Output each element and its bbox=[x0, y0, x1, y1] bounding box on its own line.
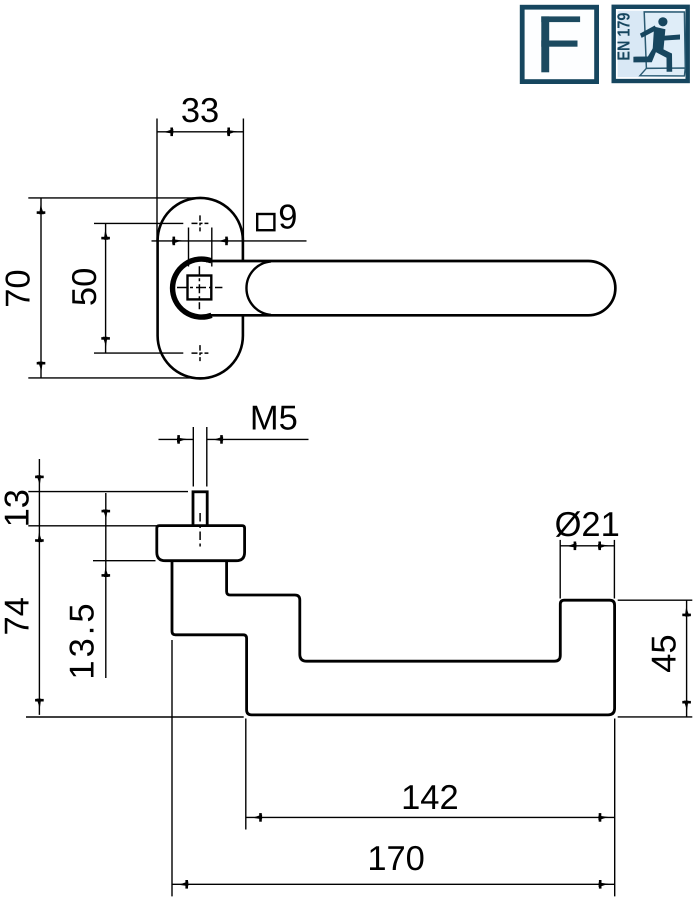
dimension 50 line bbox=[105, 223, 107, 353]
M5 left outside arrow bbox=[177, 435, 187, 444]
dim 142 left arrow bbox=[252, 813, 262, 822]
M5 stud bbox=[193, 492, 207, 527]
svg-text:Ø21: Ø21 bbox=[555, 506, 620, 544]
dia21 left arrow bbox=[567, 542, 577, 551]
dim 170 left arrow bbox=[179, 880, 189, 889]
dim 74 bottom arrow (down) bbox=[35, 699, 44, 709]
dim 45 line bbox=[686, 600, 688, 717]
dim 70 top arrow bbox=[37, 204, 46, 214]
shared right extension line bbox=[614, 719, 616, 897]
neck circle white mask bbox=[170, 257, 233, 320]
EN179 logo box bbox=[614, 7, 688, 81]
M5 right outside arrow bbox=[213, 435, 223, 444]
front leg bbox=[654, 46, 672, 72]
spindle centerline horizontal bbox=[177, 287, 222, 289]
M5 extension lines bbox=[192, 427, 194, 487]
svg-text:45: 45 bbox=[645, 634, 683, 672]
rosette oval outline bbox=[158, 198, 243, 379]
dim dia21 line bbox=[560, 545, 614, 547]
svg-text:EN 179: EN 179 bbox=[614, 12, 634, 60]
grip left cap arc bbox=[246, 261, 271, 315]
dim 50 top arrow bbox=[101, 230, 110, 240]
spindle square bbox=[188, 276, 212, 300]
head bbox=[658, 17, 667, 26]
square symbol of square-9 label bbox=[257, 214, 274, 230]
svg-text:M5: M5 bbox=[250, 400, 298, 438]
svg-text:13.5: 13.5 bbox=[64, 600, 102, 679]
rear leg bbox=[633, 48, 657, 63]
EN179 door threshold bbox=[640, 68, 685, 76]
dim 142 line bbox=[246, 816, 615, 818]
dim 13.5 bottom arrow (up) bbox=[102, 567, 111, 577]
dim 13/74 extension line shared bbox=[28, 525, 156, 527]
lower screw cross bbox=[192, 352, 209, 354]
dim 170 left extension line bbox=[171, 640, 173, 896]
upper screw cross bbox=[192, 222, 209, 224]
handle profile bbox=[172, 561, 615, 715]
dim 13.5 extension line bottom bbox=[93, 560, 156, 562]
EN179 running man bbox=[633, 17, 680, 72]
M5 dimension line right segment bbox=[207, 438, 309, 440]
svg-text:142: 142 bbox=[401, 779, 459, 817]
neck thick arc bbox=[173, 259, 212, 317]
F logo box bbox=[522, 7, 596, 81]
dimension 33 line bbox=[157, 131, 243, 133]
svg-text:9: 9 bbox=[278, 199, 297, 237]
bearing block (rose) bbox=[157, 526, 245, 561]
dimension 70 extension lines bbox=[28, 197, 204, 199]
lever outline bbox=[206, 261, 615, 315]
stud centerline bbox=[199, 513, 201, 547]
dim 170 right arrow bbox=[599, 880, 609, 889]
torso bbox=[653, 27, 666, 52]
dim 45 top arrow bbox=[682, 607, 691, 617]
dia21 right arrow bbox=[598, 542, 608, 551]
dim 13 and 74 line bbox=[38, 459, 40, 715]
dim 142 left extension line bbox=[245, 719, 247, 830]
dim 142 right arrow bbox=[598, 813, 608, 822]
dim 45 bottom arrow bbox=[682, 701, 691, 711]
dim 13.5 top arrow (down) bbox=[102, 510, 111, 520]
svg-text:33: 33 bbox=[181, 92, 219, 130]
dim 170 line bbox=[172, 883, 615, 885]
svg-text:74: 74 bbox=[0, 597, 37, 635]
square-9 left outside arrow bbox=[172, 237, 182, 246]
dim 13 extension line top bbox=[28, 491, 188, 493]
EN179 door frame bbox=[644, 12, 685, 69]
F letter bbox=[541, 16, 580, 72]
EN179 inner white ring bbox=[617, 10, 685, 78]
dim 74 bottom extension line bbox=[26, 716, 244, 718]
svg-text:50: 50 bbox=[66, 268, 104, 306]
svg-text:13: 13 bbox=[0, 489, 37, 527]
dim 13 top arrow (down) bbox=[35, 475, 44, 485]
square-9 right outside arrow bbox=[218, 237, 228, 246]
svg-text:170: 170 bbox=[367, 840, 425, 878]
square-9 extension lines bbox=[188, 228, 190, 267]
square-9 dimension line bbox=[152, 240, 307, 242]
front arm bbox=[664, 35, 680, 41]
dimension 50 extension lines bbox=[94, 222, 183, 224]
dim 33 right arrow bbox=[227, 128, 237, 137]
dimension 70 line bbox=[40, 198, 42, 378]
M5 dimension line left segment bbox=[159, 438, 194, 440]
dim 33 left arrow bbox=[164, 128, 174, 137]
rear arm bbox=[640, 26, 657, 38]
dimension 33 extension lines bbox=[156, 119, 158, 241]
spindle centerline vertical bbox=[198, 266, 200, 309]
dim 70 bottom arrow bbox=[37, 362, 46, 372]
dim 13.5 line bbox=[105, 493, 107, 678]
shared arrow at 525.8 pointing up bbox=[35, 532, 44, 542]
dim 50 bottom arrow bbox=[101, 337, 110, 347]
dim dia21 extension lines bbox=[559, 540, 561, 599]
svg-text:70: 70 bbox=[0, 269, 38, 307]
dim 45 extension lines bbox=[618, 599, 693, 601]
